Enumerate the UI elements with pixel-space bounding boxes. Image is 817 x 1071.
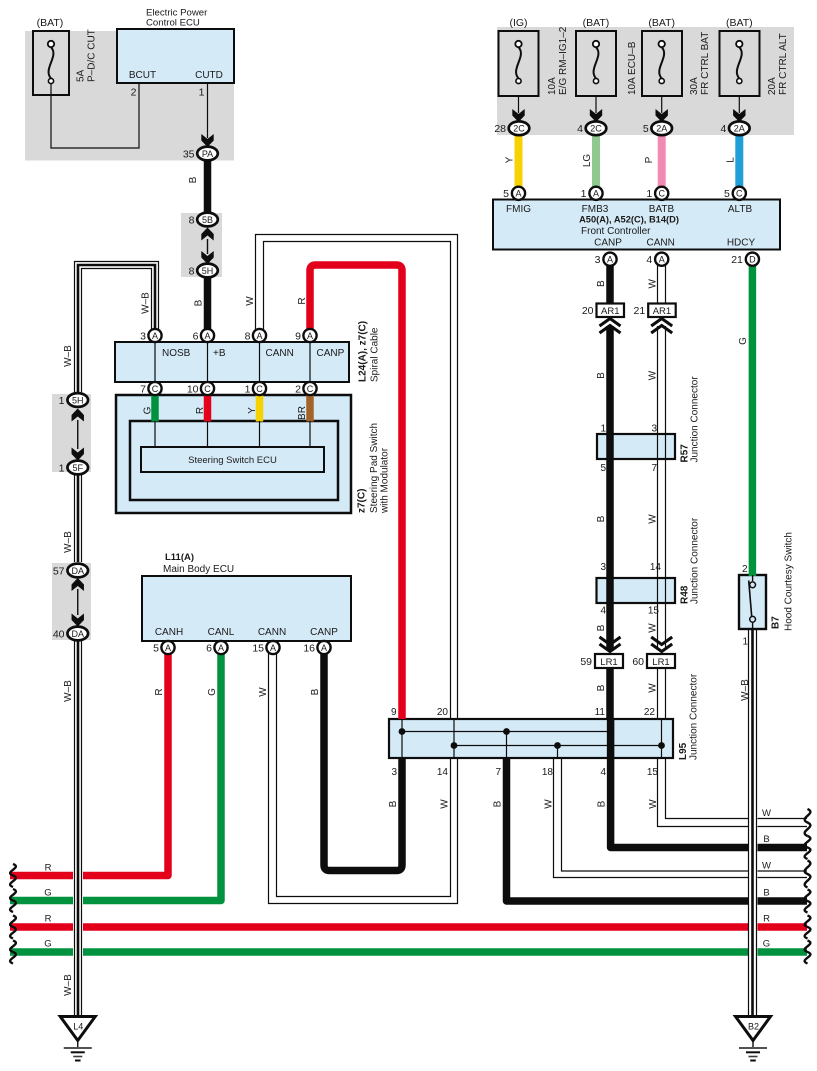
svg-text:L11(A): L11(A) (165, 552, 194, 563)
svg-text:W: W (648, 279, 659, 289)
svg-text:W: W (258, 687, 269, 697)
svg-text:FR CTRL ALT: FR CTRL ALT (778, 33, 789, 95)
svg-text:2: 2 (295, 383, 301, 395)
svg-text:G: G (738, 337, 749, 345)
svg-text:CANP: CANP (317, 348, 345, 359)
svg-text:B: B (597, 800, 608, 807)
svg-text:B: B (388, 800, 399, 807)
svg-text:3: 3 (600, 562, 606, 573)
svg-text:4: 4 (720, 123, 726, 135)
svg-text:B2: B2 (748, 1022, 759, 1032)
svg-text:BATB: BATB (649, 204, 675, 215)
svg-text:CANL: CANL (208, 627, 235, 638)
svg-text:Main Body ECU: Main Body ECU (163, 564, 234, 575)
svg-text:G: G (207, 688, 218, 696)
svg-text:with Modulator: with Modulator (380, 447, 391, 514)
svg-text:AR1: AR1 (653, 306, 671, 317)
svg-text:2C: 2C (590, 124, 602, 134)
svg-text:40: 40 (53, 628, 65, 640)
svg-text:z7(C): z7(C) (357, 489, 368, 513)
svg-text:G: G (763, 939, 770, 950)
svg-text:1: 1 (581, 188, 587, 200)
svg-text:Junction Connector: Junction Connector (689, 673, 700, 760)
svg-text:W–B: W–B (740, 679, 751, 701)
svg-text:59: 59 (580, 656, 592, 668)
svg-text:Front Controller: Front Controller (581, 226, 651, 237)
svg-text:W–B: W–B (63, 974, 74, 996)
svg-text:CUTD: CUTD (195, 70, 223, 81)
svg-text:A: A (607, 255, 613, 265)
svg-text:(BAT): (BAT) (726, 17, 753, 29)
svg-text:5: 5 (600, 463, 606, 474)
svg-text:15: 15 (648, 606, 660, 617)
svg-text:10: 10 (187, 383, 199, 395)
svg-text:BCUT: BCUT (129, 70, 156, 81)
svg-text:4: 4 (646, 254, 652, 266)
svg-text:C: C (204, 384, 211, 394)
svg-text:2A: 2A (734, 124, 745, 134)
svg-text:1: 1 (59, 462, 65, 474)
svg-text:14: 14 (437, 767, 449, 778)
svg-text:A: A (152, 331, 158, 341)
svg-text:8: 8 (245, 330, 251, 342)
svg-text:W: W (762, 861, 771, 872)
svg-text:LR1: LR1 (600, 657, 617, 668)
svg-text:ALTB: ALTB (728, 204, 753, 215)
svg-text:5A: 5A (76, 69, 87, 82)
svg-text:CANP: CANP (594, 238, 622, 249)
svg-text:+B: +B (213, 348, 226, 359)
svg-text:W: W (648, 370, 659, 380)
svg-text:16: 16 (303, 642, 315, 654)
svg-text:1: 1 (600, 424, 606, 435)
svg-text:5H: 5H (202, 266, 214, 276)
svg-text:LR1: LR1 (652, 657, 669, 668)
svg-text:W: W (440, 799, 451, 809)
svg-text:L4: L4 (73, 1022, 83, 1032)
svg-text:Y: Y (247, 407, 258, 414)
svg-text:L: L (726, 157, 737, 163)
svg-text:20: 20 (582, 305, 594, 317)
svg-text:LG: LG (582, 154, 593, 168)
svg-text:5: 5 (503, 188, 509, 200)
svg-text:W–B: W–B (141, 292, 152, 314)
svg-text:W: W (648, 514, 659, 524)
svg-text:35: 35 (183, 148, 195, 160)
svg-text:Steering Pad Switch: Steering Pad Switch (369, 423, 380, 513)
svg-text:R: R (297, 297, 308, 304)
svg-text:FMIG: FMIG (506, 204, 531, 215)
svg-text:Y: Y (505, 156, 516, 163)
svg-text:A: A (307, 331, 313, 341)
svg-text:E/G RM–IG1–2: E/G RM–IG1–2 (558, 26, 569, 95)
svg-text:PA: PA (202, 149, 213, 159)
svg-text:NOSB: NOSB (162, 348, 191, 359)
svg-text:8: 8 (189, 265, 195, 277)
svg-text:6: 6 (193, 330, 199, 342)
svg-text:3: 3 (391, 767, 397, 778)
svg-text:W: W (648, 683, 659, 693)
svg-text:B: B (188, 176, 199, 183)
svg-text:A: A (218, 643, 224, 653)
svg-text:Control ECU: Control ECU (146, 18, 200, 29)
svg-text:G: G (44, 939, 51, 950)
svg-text:A: A (659, 255, 665, 265)
svg-text:B: B (596, 280, 607, 287)
svg-text:C: C (152, 384, 159, 394)
svg-text:22: 22 (644, 707, 656, 718)
svg-text:1: 1 (59, 395, 65, 407)
svg-text:A: A (204, 331, 210, 341)
svg-text:AR1: AR1 (601, 306, 619, 317)
svg-text:B: B (493, 800, 504, 807)
svg-text:1: 1 (245, 383, 251, 395)
svg-text:2: 2 (742, 564, 748, 575)
svg-text:8: 8 (189, 214, 195, 226)
svg-text:C: C (736, 189, 743, 199)
svg-text:15: 15 (252, 642, 264, 654)
svg-text:5H: 5H (72, 395, 84, 405)
svg-text:R: R (45, 863, 52, 874)
svg-text:B: B (763, 834, 769, 845)
svg-text:28: 28 (494, 123, 506, 135)
svg-text:A: A (256, 331, 262, 341)
svg-text:(BAT): (BAT) (648, 17, 675, 29)
svg-text:B7: B7 (771, 616, 782, 629)
svg-text:21: 21 (634, 305, 646, 317)
svg-text:4: 4 (600, 606, 606, 617)
svg-text:1: 1 (742, 637, 748, 648)
svg-text:5: 5 (724, 188, 730, 200)
svg-text:10A: 10A (547, 77, 558, 95)
svg-text:A: A (593, 189, 599, 199)
svg-text:2C: 2C (513, 124, 525, 134)
svg-text:3: 3 (140, 330, 146, 342)
svg-text:R: R (195, 407, 206, 414)
svg-text:A50(A), A52(C), B14(D): A50(A), A52(C), B14(D) (579, 215, 679, 225)
svg-text:R: R (763, 914, 770, 925)
svg-text:57: 57 (53, 565, 65, 577)
svg-text:10A ECU–B: 10A ECU–B (627, 41, 638, 95)
svg-text:CANN: CANN (258, 627, 286, 638)
svg-text:Junction Connector: Junction Connector (690, 376, 701, 463)
svg-text:5B: 5B (202, 215, 213, 225)
svg-text:W: W (648, 623, 659, 633)
svg-text:A: A (321, 643, 327, 653)
svg-text:6: 6 (206, 642, 212, 654)
svg-text:(BAT): (BAT) (583, 17, 610, 29)
svg-text:P: P (644, 156, 655, 163)
svg-text:B: B (763, 888, 769, 899)
svg-text:B: B (310, 688, 321, 695)
svg-text:4: 4 (577, 123, 583, 135)
svg-text:5: 5 (153, 642, 159, 654)
svg-text:Junction Connector: Junction Connector (690, 517, 701, 604)
svg-text:W: W (648, 799, 659, 809)
svg-text:G: G (143, 406, 154, 414)
svg-text:W: W (762, 808, 771, 819)
svg-text:CANN: CANN (266, 348, 294, 359)
svg-text:G: G (44, 888, 51, 899)
svg-text:7: 7 (495, 767, 501, 778)
svg-text:W: W (544, 799, 555, 809)
svg-text:FMB3: FMB3 (582, 204, 609, 215)
svg-text:C: C (256, 384, 263, 394)
svg-text:HDCY: HDCY (727, 238, 756, 249)
svg-text:B: B (596, 372, 607, 379)
svg-text:B: B (596, 624, 607, 631)
svg-text:20: 20 (437, 707, 449, 718)
svg-text:5: 5 (643, 123, 649, 135)
svg-text:4: 4 (600, 767, 606, 778)
svg-text:C: C (658, 189, 665, 199)
svg-text:D: D (749, 255, 756, 265)
svg-text:18: 18 (542, 767, 554, 778)
svg-text:B: B (194, 299, 205, 306)
svg-text:L95: L95 (678, 742, 689, 760)
svg-text:Steering Switch ECU: Steering Switch ECU (188, 455, 277, 466)
svg-text:3: 3 (595, 254, 601, 266)
svg-text:(IG): (IG) (509, 17, 527, 29)
svg-text:W–B: W–B (63, 345, 74, 367)
svg-text:W–B: W–B (63, 680, 74, 702)
svg-text:L24(A), z7(C): L24(A), z7(C) (358, 321, 369, 382)
svg-text:2: 2 (131, 87, 137, 99)
svg-text:1: 1 (646, 188, 652, 200)
svg-text:B: B (596, 684, 607, 691)
svg-text:DA: DA (71, 629, 84, 639)
svg-text:30A: 30A (689, 77, 700, 95)
svg-text:5F: 5F (72, 463, 83, 473)
svg-text:Hood Courtesy Switch: Hood Courtesy Switch (784, 532, 795, 631)
svg-text:9: 9 (391, 707, 397, 718)
svg-text:Spiral Cable: Spiral Cable (370, 327, 381, 382)
svg-text:CANH: CANH (155, 627, 183, 638)
svg-text:DA: DA (71, 566, 84, 576)
svg-text:60: 60 (632, 656, 644, 668)
svg-text:B: B (596, 515, 607, 522)
svg-text:7: 7 (651, 463, 657, 474)
svg-text:CANN: CANN (647, 238, 675, 249)
svg-text:A: A (270, 643, 276, 653)
svg-text:CANP: CANP (310, 627, 338, 638)
svg-text:20A: 20A (767, 77, 778, 95)
svg-text:1: 1 (199, 87, 205, 99)
svg-text:A: A (515, 189, 521, 199)
svg-text:P–D/C CUT: P–D/C CUT (87, 29, 98, 82)
svg-text:15: 15 (647, 767, 659, 778)
svg-text:2A: 2A (656, 124, 667, 134)
svg-text:W: W (245, 296, 256, 306)
svg-text:R: R (45, 914, 52, 925)
svg-text:A: A (165, 643, 171, 653)
svg-text:7: 7 (140, 383, 146, 395)
svg-text:W–B: W–B (63, 531, 74, 553)
svg-text:R: R (154, 688, 165, 695)
svg-text:FR CTRL BAT: FR CTRL BAT (700, 32, 711, 95)
svg-text:14: 14 (650, 562, 662, 573)
svg-text:9: 9 (295, 330, 301, 342)
svg-text:(BAT): (BAT) (37, 17, 64, 29)
svg-text:3: 3 (651, 424, 657, 435)
svg-text:BR: BR (297, 406, 308, 420)
svg-text:C: C (307, 384, 314, 394)
svg-text:21: 21 (731, 254, 743, 266)
svg-text:11: 11 (595, 707, 606, 718)
